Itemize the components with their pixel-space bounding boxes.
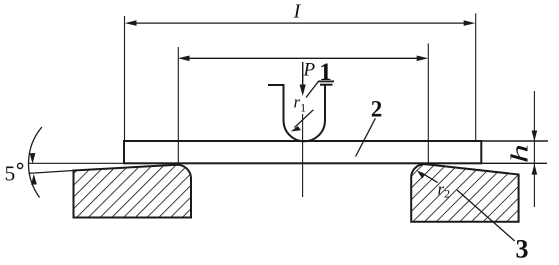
h arrow up xyxy=(532,164,538,175)
beam top extension line xyxy=(481,140,548,142)
leader arrow r2 xyxy=(417,170,438,182)
dimension line I (span) xyxy=(125,20,475,26)
5 degree annotation: sloped extension line xyxy=(29,171,74,174)
dimension line inner span xyxy=(178,56,428,62)
leader arrow r1 xyxy=(291,110,314,132)
indenter U-profile (punch) xyxy=(268,85,325,142)
leader from label 2 xyxy=(356,118,376,156)
specimen beam 2 xyxy=(124,141,481,163)
svg-text:h: h xyxy=(506,144,533,163)
extension line right of I xyxy=(475,13,477,141)
svg-text:5: 5 xyxy=(5,162,16,186)
svg-text:P: P xyxy=(303,60,316,81)
arc arrowhead up xyxy=(31,174,37,185)
beam bottom extension line xyxy=(481,162,547,164)
right support (anvil) 3 xyxy=(411,164,518,222)
extension line right inner xyxy=(427,44,429,165)
left support (anvil) xyxy=(74,165,192,218)
extension line left inner xyxy=(177,47,179,165)
force P arrow xyxy=(300,62,306,96)
5 degree annotation: horizontal reference line xyxy=(29,162,125,164)
extension line left of I xyxy=(124,16,126,140)
centerline xyxy=(302,114,304,197)
5 degree arc xyxy=(29,127,42,198)
leader from label 3 xyxy=(457,190,515,241)
h dimension line xyxy=(533,91,535,207)
leader from label 1 xyxy=(306,81,319,97)
h arrow down xyxy=(532,131,538,142)
svg-text:2: 2 xyxy=(371,97,383,122)
underline of label 1 xyxy=(318,80,334,82)
svg-text:3: 3 xyxy=(516,234,529,263)
svg-text:I: I xyxy=(293,1,302,23)
arc arrowhead down xyxy=(30,153,36,164)
indenter right lip xyxy=(320,84,333,86)
